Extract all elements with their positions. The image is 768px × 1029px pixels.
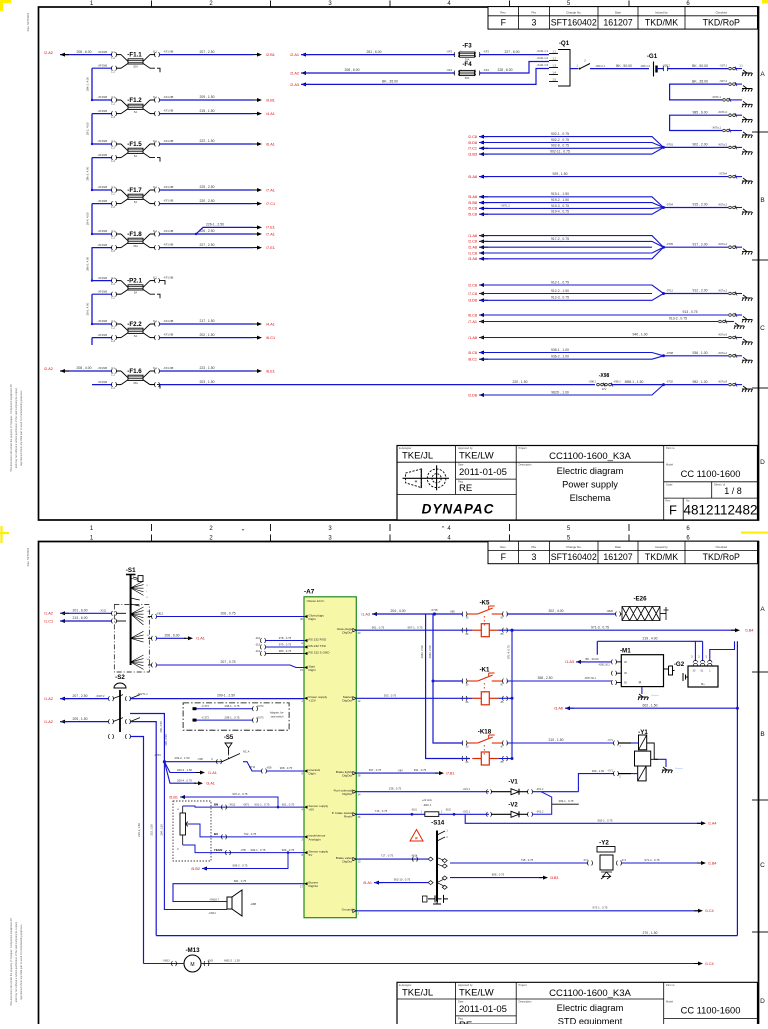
ground — [742, 149, 753, 155]
ground M1 — [641, 687, 643, 694]
svg-text:940 , 1.00: 940 , 1.00 — [632, 333, 647, 337]
svg-text:-XF1.NB: -XF1.NB — [163, 199, 174, 203]
wire collected — [664, 207, 729, 209]
wire collected — [664, 293, 729, 295]
wire — [479, 208, 664, 215]
svg-text:-K073: -K073 — [257, 716, 264, 720]
svg-text:-XF1NB: -XF1NB — [97, 333, 107, 337]
svg-text:Electric diagram: Electric diagram — [557, 1003, 624, 1013]
svg-text:TKD/MK: TKD/MK — [645, 18, 678, 28]
svg-text:Project: Project — [519, 983, 527, 987]
svg-text:⌃: ⌃ — [440, 526, 445, 533]
svg-text:E-designer: E-designer — [399, 446, 412, 450]
svg-text:/5.C8: /5.C8 — [468, 213, 477, 217]
svg-text:8.1: 8.1 — [153, 139, 157, 143]
svg-text:/7.C1: /7.C1 — [266, 202, 275, 206]
svg-text:/3.B3: /3.B3 — [550, 876, 558, 880]
svg-text:/5.A1: /5.A1 — [363, 881, 372, 885]
projection symbol — [403, 465, 450, 490]
svg-text:-F1.2: -F1.2 — [127, 97, 142, 104]
svg-text:209-1 , 2.50: 209-1 , 2.50 — [217, 693, 235, 697]
svg-text:Date: Date — [458, 463, 464, 467]
svg-text:28k-1, 4.00: 28k-1, 4.00 — [86, 77, 90, 91]
svg-text:607-2 , 0.75: 607-2 , 0.75 — [233, 792, 248, 796]
svg-text:209-3 , 1.50: 209-3 , 1.50 — [177, 768, 192, 772]
svg-text:-K1: -K1 — [480, 667, 491, 674]
svg-text:/2.A3: /2.A3 — [290, 83, 299, 87]
svg-text:3: 3 — [532, 18, 537, 28]
svg-text:/3.A8: /3.A8 — [468, 257, 477, 261]
wire K18 coil right — [498, 758, 512, 760]
svg-text:Date: Date — [458, 1000, 464, 1004]
wire lower output — [159, 203, 253, 205]
svg-text:-X07b.2: -X07b.2 — [718, 110, 728, 114]
wire — [479, 246, 652, 248]
svg-text:-XF1NB: -XF1NB — [97, 63, 107, 67]
svg-text:1.3: 1.3 — [552, 64, 556, 68]
svg-text:/1.C8: /1.C8 — [468, 251, 477, 255]
svg-text:-S1: -S1 — [126, 567, 136, 574]
wire — [265, 653, 304, 655]
wire lower feed — [92, 113, 112, 115]
svg-text:-X814: -X814 — [411, 855, 418, 858]
svg-text:/5.C8: /5.C8 — [468, 351, 477, 355]
wire 902-1 to /1.A4 — [465, 814, 701, 823]
svg-text:601-1 , 0.75: 601-1 , 0.75 — [255, 802, 270, 806]
pin A7 right Brake valve — [353, 858, 357, 861]
pin A7 left Sensor supply — [304, 851, 308, 854]
svg-text:/4.A1: /4.A1 — [266, 112, 275, 116]
svg-text:208-1 , 0.75: 208-1 , 0.75 — [225, 716, 240, 720]
svg-text:STD equipment: STD equipment — [558, 1016, 623, 1024]
svg-text:-A7: -A7 — [304, 589, 315, 596]
svg-text:-Q1: -Q1 — [559, 40, 570, 47]
wire output — [159, 189, 253, 191]
wire brake lights out — [356, 772, 438, 774]
pin A7 right Fuel solenoid — [353, 790, 357, 793]
wire lower feed — [92, 247, 112, 249]
svg-text:+5V: +5V — [309, 808, 316, 812]
svg-text:-XF1.NB: -XF1.NB — [163, 50, 174, 54]
wire output — [159, 143, 253, 145]
svg-text:/1.A1: /1.A1 — [196, 637, 205, 641]
wire riser to K18 coil — [426, 614, 470, 759]
svg-text:-0TB: -0TB — [240, 849, 246, 852]
svg-text:2042, 2.50: 2042, 2.50 — [420, 645, 424, 658]
wire right riser — [736, 641, 738, 935]
ground — [742, 101, 753, 107]
svg-text:/1.C4: /1.C4 — [705, 962, 714, 966]
svg-text:161207: 161207 — [603, 552, 632, 562]
svg-text:601 , 0.75: 601 , 0.75 — [282, 802, 295, 806]
svg-text:917 , 2.00: 917 , 2.00 — [692, 242, 707, 246]
svg-text:208 , 6.00: 208 , 6.00 — [344, 68, 359, 72]
svg-text:902-1 , 0.75: 902-1 , 0.75 — [598, 819, 613, 823]
svg-text:912-2 , 1.50: 912-2 , 1.50 — [551, 289, 569, 293]
svg-text:/1.A3: /1.A3 — [565, 660, 574, 664]
wire staple loop — [670, 115, 728, 130]
svg-text:/2.A2: /2.A2 — [290, 71, 299, 75]
wire K5 to E26 — [507, 613, 616, 615]
wire — [479, 147, 664, 154]
wire lower output — [159, 337, 253, 339]
svg-text:1.2: 1.2 — [111, 282, 115, 286]
wire battery main — [570, 68, 578, 70]
sheet border frame — [39, 542, 759, 1029]
ground — [742, 86, 753, 92]
wire lower output — [159, 113, 253, 115]
svg-text:TKE/LW: TKE/LW — [459, 987, 494, 998]
adapter box seat switch — [183, 703, 289, 730]
svg-text:735 , 0.75: 735 , 0.75 — [521, 858, 534, 862]
svg-text:+12V: +12V — [309, 699, 317, 703]
svg-text:-G1: -G1 — [647, 53, 658, 60]
svg-text:936-2 , 1.00: 936-2 , 1.00 — [551, 355, 569, 359]
svg-text:/5.B2: /5.B2 — [191, 867, 200, 871]
switch isolator — [580, 64, 590, 69]
svg-text:D: D — [760, 459, 765, 466]
wire Y2 to /1.B4 — [621, 862, 701, 864]
svg-text:DigOut: DigOut — [342, 631, 352, 635]
svg-text:8.1: 8.1 — [153, 366, 157, 370]
svg-text:-XF1.NB: -XF1.NB — [163, 185, 174, 189]
svg-text:28-2, 4.00: 28-2, 4.00 — [86, 122, 90, 135]
svg-text:-X871.2: -X871.2 — [500, 203, 510, 207]
svg-text:-X826: -X826 — [606, 609, 613, 613]
svg-text:Chassis: Chassis — [651, 695, 660, 697]
svg-text:-XF3: -XF3 — [483, 50, 489, 54]
enclosure S1 dashed — [114, 605, 149, 672]
svg-text:/1.A8: /1.A8 — [468, 234, 477, 238]
ground — [742, 132, 753, 138]
svg-text:-X812: -X812 — [156, 612, 164, 616]
sheet border frame — [39, 7, 759, 520]
svg-text:912 , 2.00: 912 , 2.00 — [692, 289, 707, 293]
svg-text:808 , 0.75: 808 , 0.75 — [492, 872, 505, 876]
svg-text:302 , 4.00: 302 , 4.00 — [548, 609, 563, 613]
svg-text:E-designer: E-designer — [399, 983, 412, 987]
svg-text:DigOut: DigOut — [342, 792, 352, 796]
pin A7 right Brake lights — [353, 772, 357, 775]
svg-text:-XF1NB: -XF1NB — [97, 319, 107, 323]
svg-text:50A: 50A — [465, 76, 470, 80]
svg-text:/7.A1: /7.A1 — [266, 188, 275, 192]
svg-text:1.2: 1.2 — [111, 145, 115, 149]
svg-text:F: F — [501, 552, 507, 562]
svg-text:-0Y2: -0Y2 — [621, 859, 627, 862]
svg-text:908 , 0.75: 908 , 0.75 — [280, 766, 293, 770]
wire bottom bus 270 — [156, 935, 737, 937]
svg-text:-R22.1: -R22.1 — [423, 803, 432, 807]
svg-text:-F3: -F3 — [462, 43, 472, 50]
svg-text:303 , 0.75: 303 , 0.75 — [384, 694, 397, 698]
svg-text:717 , 0.75: 717 , 0.75 — [381, 854, 394, 858]
svg-text:207 , 2.50: 207 , 2.50 — [199, 50, 214, 54]
wire — [479, 143, 664, 148]
wire — [479, 207, 664, 210]
svg-text:203 , 1.50: 203 , 1.50 — [199, 380, 214, 384]
wire to /3.A1 — [164, 762, 196, 784]
svg-text:602 , 1.50: 602 , 1.50 — [642, 703, 657, 707]
svg-text:919-2 , 1.50: 919-2 , 1.50 — [551, 198, 569, 202]
svg-text:/6.A1: /6.A1 — [266, 142, 275, 146]
svg-text:917-2 , 0.75: 917-2 , 0.75 — [551, 237, 569, 241]
wire pbrake row — [356, 813, 489, 815]
svg-text:YEGN: YEGN — [214, 848, 223, 852]
svg-text:-0Y2: -0Y2 — [583, 859, 589, 862]
svg-text:-X613: -X613 — [229, 803, 236, 806]
svg-text:1 / 8: 1 / 8 — [724, 486, 742, 496]
wire main feed — [92, 323, 112, 325]
svg-text:-G2: -G2 — [674, 661, 685, 668]
wire — [197, 708, 254, 710]
svg-text:1.2: 1.2 — [111, 372, 115, 376]
svg-text:913 , 0.75: 913 , 0.75 — [682, 310, 697, 314]
svg-text:/3.A6: /3.A6 — [554, 707, 563, 711]
svg-text:205, 2.50: 205, 2.50 — [164, 734, 168, 746]
svg-text:227 , 6.00: 227 , 6.00 — [504, 50, 519, 54]
svg-text:CC 1100-1600: CC 1100-1600 — [681, 1006, 741, 1016]
svg-text:-XF1NB: -XF1NB — [97, 243, 107, 247]
ground — [742, 339, 753, 345]
svg-text:Checked: Checked — [716, 10, 728, 14]
svg-text:982D , 1.00: 982D , 1.00 — [551, 390, 569, 394]
svg-text:223 , 1.50: 223 , 1.50 — [199, 366, 214, 370]
svg-text:Project: Project — [519, 446, 527, 450]
svg-text:5A: 5A — [134, 200, 137, 204]
potentiometer R — [180, 813, 186, 835]
svg-text:201 , 6.00: 201 , 6.00 — [72, 609, 87, 613]
svg-text:-X07.2: -X07.2 — [719, 79, 727, 83]
svg-text:/1.A2: /1.A2 — [44, 612, 53, 616]
svg-text:978 , 0.75: 978 , 0.75 — [279, 636, 292, 640]
svg-text:-XF1.NB: -XF1.NB — [163, 229, 174, 233]
registration mark mid-right — [741, 532, 768, 534]
svg-text:913-2 , 0.75: 913-2 , 0.75 — [669, 317, 687, 321]
svg-text:-0T04: -0T04 — [666, 203, 674, 207]
relay K18 coil — [472, 752, 498, 765]
svg-text:TKE/JL: TKE/JL — [402, 987, 433, 998]
svg-text:-X07a.2: -X07a.2 — [718, 203, 728, 207]
svg-text:691 , 0.75: 691 , 0.75 — [414, 768, 427, 772]
svg-text:8.1: 8.1 — [153, 95, 157, 99]
svg-text:/6.C8: /6.C8 — [468, 313, 477, 317]
wire main feed — [60, 370, 112, 372]
wire main feed — [92, 280, 112, 282]
svg-text:TKE/LW: TKE/LW — [459, 451, 494, 462]
svg-text:-0T08: -0T08 — [666, 351, 674, 355]
svg-text:/2.D8: /2.D8 — [468, 393, 477, 397]
svg-text:-XF1.NB: -XF1.NB — [163, 109, 174, 113]
svg-text:979 , 0.75: 979 , 0.75 — [279, 643, 292, 647]
svg-text:/7.A1: /7.A1 — [468, 320, 477, 324]
svg-text:-X728: -X728 — [431, 608, 438, 612]
svg-text:BK , 35.00: BK , 35.00 — [692, 79, 708, 83]
svg-text:220 , 1.50: 220 , 1.50 — [512, 380, 527, 384]
svg-text:BK , 50.00: BK , 50.00 — [692, 64, 708, 68]
relay K1 coil — [472, 692, 498, 705]
wire — [479, 353, 664, 356]
svg-text:902-11 , 0.75: 902-11 , 0.75 — [550, 150, 570, 154]
svg-text:215 , 1.50: 215 , 1.50 — [199, 109, 214, 113]
svg-text:-0T20: -0T20 — [666, 380, 674, 384]
svg-text:309-1 , 0.75: 309-1 , 0.75 — [559, 799, 574, 803]
svg-text:1.2: 1.2 — [111, 191, 115, 195]
wire S1 mid out — [148, 637, 152, 639]
svg-text:702 , 0.75: 702 , 0.75 — [244, 832, 257, 836]
svg-text:/2.A2: /2.A2 — [44, 51, 53, 55]
svg-text:206 , 6.00: 206 , 6.00 — [164, 634, 179, 638]
svg-text:Part no.: Part no. — [666, 983, 675, 987]
svg-text:-X98: -X98 — [599, 373, 610, 379]
svg-text:-013: -013 — [255, 643, 261, 646]
svg-text:5A: 5A — [134, 110, 137, 114]
svg-text:209-2 , 1.50: 209-2 , 1.50 — [175, 756, 190, 760]
wire main feed — [92, 233, 112, 235]
svg-text:/1.A2: /1.A2 — [44, 697, 53, 701]
svg-text:681 , 0.75: 681 , 0.75 — [234, 879, 247, 883]
wire output — [159, 99, 253, 101]
svg-text:238 , 0.75: 238 , 0.75 — [389, 786, 402, 790]
pin A7 left Interlock — [304, 769, 308, 772]
svg-text:-0V2.1: -0V2.1 — [463, 811, 471, 814]
svg-text:972-1 , 0.75: 972-1 , 0.75 — [593, 906, 608, 910]
svg-text:-XM13: -XM13 — [162, 959, 170, 962]
wire S2 risers — [130, 714, 164, 762]
svg-text:D: D — [760, 998, 765, 1005]
pin A7 right P. brake status — [353, 813, 357, 816]
svg-text:208 , 6.00: 208 , 6.00 — [76, 50, 91, 54]
svg-text:222 , 1.50: 222 , 1.50 — [199, 139, 214, 143]
svg-text:M92-2 , 1.50: M92-2 , 1.50 — [224, 958, 240, 962]
svg-text:M: M — [190, 962, 194, 968]
wire — [197, 719, 254, 721]
svg-text:-X84: -X84 — [397, 770, 403, 773]
svg-text:4812112482: 4812112482 — [683, 503, 757, 518]
svg-text:-F1.1: -F1.1 — [127, 51, 142, 58]
svg-text:-X08: -X08 — [266, 766, 272, 770]
svg-text:-XF1NB: -XF1NB — [97, 95, 107, 99]
svg-text:-0T05: -0T05 — [666, 242, 674, 246]
wire horn return — [164, 762, 227, 910]
svg-text:281 , 6.00: 281 , 6.00 — [366, 50, 381, 54]
svg-text:1.2: 1.2 — [111, 56, 115, 60]
svg-text:Scale: Scale — [666, 482, 673, 486]
wire ground out to /1.C4 — [356, 910, 698, 912]
svg-text:-0102: -0102 — [445, 810, 452, 812]
registration mark top-right — [762, 0, 768, 4]
svg-text:BN: BN — [214, 802, 218, 806]
wire M1 pin50 from K1 — [507, 680, 612, 682]
svg-text:-0T01: -0T01 — [666, 142, 674, 146]
svg-text:2011-01-05: 2011-01-05 — [459, 467, 507, 478]
registration mark mid-left — [0, 526, 9, 543]
svg-text:Date: Date — [615, 545, 621, 549]
wire collected — [664, 355, 729, 357]
svg-text:/7.C1: /7.C1 — [468, 147, 477, 151]
wire Y1 pin2 — [578, 774, 614, 792]
svg-text:-XF1NB: -XF1NB — [97, 289, 107, 293]
wire interlock — [164, 761, 222, 763]
svg-text:210-1, 1.50: 210-1, 1.50 — [137, 823, 141, 837]
pin A7 left Buzzer — [304, 882, 308, 885]
svg-text:A: A — [760, 606, 765, 613]
svg-text:/5.D8: /5.D8 — [468, 141, 477, 145]
svg-text:/1.B4: /1.B4 — [745, 629, 753, 633]
svg-text:8.1: 8.1 — [153, 50, 157, 54]
wire lower feed — [92, 157, 112, 159]
wire lower feed — [92, 337, 112, 339]
wire starter digout to K1 coil — [356, 697, 472, 699]
wire — [479, 197, 664, 208]
svg-text:971-4, 0.75: 971-4, 0.75 — [507, 645, 511, 659]
svg-text:-XF1.NB: -XF1.NB — [163, 95, 174, 99]
svg-text:1.4: 1.4 — [552, 71, 556, 75]
svg-text:-X08: -X08 — [197, 757, 203, 761]
svg-text:-XF3: -XF3 — [446, 50, 452, 54]
svg-text:/1.A4: /1.A4 — [708, 822, 716, 826]
svg-text:DigOut: DigOut — [342, 699, 352, 703]
svg-text:RS 232 S.GND: RS 232 S.GND — [309, 650, 331, 654]
svg-text:TKD/MK: TKD/MK — [645, 552, 678, 562]
pin A7 right Starter — [353, 697, 357, 700]
svg-text:Part no.: Part no. — [666, 446, 675, 450]
svg-text:<Master ECU>: <Master ECU> — [306, 599, 325, 603]
svg-text:697 , 0.75: 697 , 0.75 — [369, 768, 382, 772]
svg-text:204 , 4.00: 204 , 4.00 — [390, 609, 405, 613]
relay K5 coil — [472, 624, 498, 637]
ground — [742, 209, 753, 215]
svg-text:161207: 161207 — [603, 18, 632, 28]
svg-text:SFT160402: SFT160402 — [551, 552, 597, 562]
svg-text:/5.C8: /5.C8 — [468, 207, 477, 211]
svg-text:/2.C8: /2.C8 — [468, 283, 477, 287]
svg-text:28-6, 4.00: 28-6, 4.00 — [86, 302, 90, 315]
svg-text:-XF1NB: -XF1NB — [97, 380, 107, 384]
svg-text:98 W: 98 W — [249, 765, 256, 769]
wire lower output — [159, 247, 253, 249]
svg-text:-XF1.NB: -XF1.NB — [163, 139, 174, 143]
wire — [479, 294, 664, 301]
svg-text:226 , 2.50: 226 , 2.50 — [199, 229, 214, 233]
svg-text:213 , 6.00: 213 , 6.00 — [72, 616, 87, 620]
svg-text:1.2: 1.2 — [111, 249, 115, 253]
svg-text:-XF1NB: -XF1NB — [97, 366, 107, 370]
svg-text:-0101: -0101 — [411, 810, 418, 812]
node feeder taps — [91, 99, 93, 101]
wire BU input — [189, 824, 304, 837]
horn H88 — [232, 890, 242, 916]
svg-text:-V1: -V1 — [508, 780, 518, 786]
wire BN sensor+5 — [183, 806, 304, 807]
svg-text:/1.B4: /1.B4 — [708, 861, 716, 865]
svg-text:-X211.1:1: -X211.1:1 — [537, 49, 549, 53]
pin A7 left Input/sensor — [304, 835, 308, 838]
svg-text:Model: Model — [666, 463, 673, 467]
svg-text:936-1 , 1.00: 936-1 , 1.00 — [551, 348, 569, 352]
svg-text:-XF1NB: -XF1NB — [97, 50, 107, 54]
svg-text:/2.A8: /2.A8 — [468, 246, 477, 250]
svg-text:-F1.8: -F1.8 — [127, 231, 142, 238]
svg-text:Ground: Ground — [342, 908, 353, 912]
svg-text:-F1.6: -F1.6 — [127, 368, 142, 375]
svg-text:/8.C1: /8.C1 — [468, 358, 477, 362]
capacitor filter bottom — [428, 895, 448, 903]
svg-text:1.2: 1.2 — [111, 325, 115, 329]
svg-text:-K073: -K073 — [257, 704, 264, 708]
svg-text:-XF1.NB: -XF1.NB — [163, 366, 174, 370]
svg-text:1.2: 1.2 — [552, 57, 556, 61]
